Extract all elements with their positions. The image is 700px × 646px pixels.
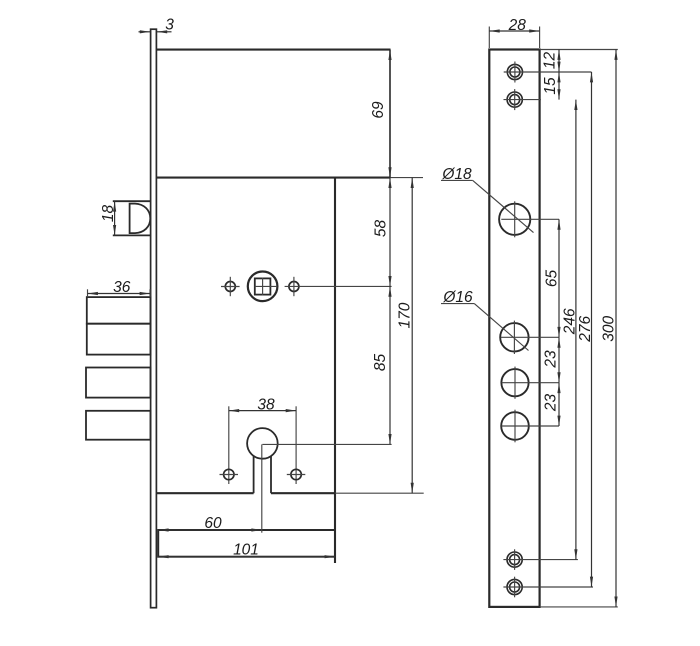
lock body middle edge — [156, 177, 390, 179]
screw hole right of keyhole — [291, 469, 301, 479]
dimension 170 — [411, 178, 413, 494]
hole 3 — [501, 369, 528, 396]
svg-text:300: 300 — [601, 315, 618, 341]
leader D18 — [441, 180, 534, 232]
dimension 18 — [114, 201, 116, 235]
svg-text:246: 246 — [561, 308, 578, 335]
lock body bottom edge — [156, 492, 253, 494]
svg-text:23: 23 — [543, 394, 560, 413]
wire — [271, 492, 335, 494]
svg-text:58: 58 — [373, 220, 390, 238]
dimension 28 — [489, 30, 539, 32]
svg-text:28: 28 — [508, 17, 527, 34]
svg-text:15: 15 — [542, 77, 559, 95]
top extension line — [540, 49, 618, 51]
dimension 58 — [389, 178, 391, 287]
spindle square hole — [255, 278, 271, 294]
svg-text:170: 170 — [397, 302, 414, 328]
dimension 36 — [88, 293, 151, 295]
top screw hole 2 — [507, 92, 522, 107]
dimension 38 — [229, 410, 296, 412]
deadbolt box 3 — [86, 368, 151, 398]
bottom extension line — [540, 606, 618, 608]
dimension 85 — [389, 286, 391, 444]
latch bolt head (D shape) — [130, 204, 151, 234]
keyhole slot left side — [253, 456, 255, 493]
crosshair — [504, 89, 541, 110]
svg-text:69: 69 — [370, 101, 387, 119]
faceplate front outline — [489, 50, 539, 607]
extension line at y=493.2 — [335, 492, 424, 494]
spindle hole circle — [248, 272, 278, 302]
spindle crosshair — [255, 278, 278, 296]
dimension 300 — [615, 50, 617, 607]
crosshair — [501, 201, 559, 237]
latch bolt top edge — [113, 200, 151, 202]
svg-text:65: 65 — [544, 270, 561, 288]
keyhole centerline vertical — [261, 444, 263, 532]
svg-text:85: 85 — [372, 354, 389, 372]
screw hole left of keyhole — [224, 469, 234, 479]
leader D16 — [441, 304, 529, 351]
latch bolt bottom edge — [113, 234, 151, 236]
crosshair — [504, 62, 592, 83]
bottom trim plate (101 box) — [158, 530, 335, 557]
crosshair — [502, 367, 559, 399]
dimension 15 — [558, 72, 560, 100]
svg-text:101: 101 — [233, 542, 259, 559]
svg-text:60: 60 — [204, 515, 222, 532]
crosshair — [503, 577, 593, 598]
svg-text:3: 3 — [165, 17, 174, 34]
faceplate (side view, 3mm strip) — [151, 29, 157, 608]
dimension 246 — [575, 100, 577, 560]
svg-text:276: 276 — [577, 315, 594, 342]
hole 4 — [501, 412, 529, 440]
svg-text:12: 12 — [542, 52, 559, 70]
svg-text:Ø16: Ø16 — [442, 289, 473, 306]
keyhole circle — [247, 428, 278, 459]
lock body right edge — [334, 178, 336, 563]
crosshair — [501, 410, 559, 443]
dimension 101 — [158, 556, 335, 558]
hole D18 — [499, 204, 530, 235]
dimension 12 — [558, 50, 560, 73]
dimension 23 lower — [558, 383, 560, 426]
crosshair — [287, 474, 306, 476]
deadbolt box 4 — [86, 411, 151, 440]
crosshair — [220, 474, 239, 476]
crosshair + extension to dim line — [285, 277, 392, 296]
screw hole right of spindle — [289, 282, 299, 292]
dimension 69 (upper box right edge / dim line) — [389, 50, 391, 178]
hole D16 — [500, 323, 528, 351]
svg-text:23: 23 — [543, 350, 560, 369]
screw hole left of spindle — [225, 282, 235, 292]
extension line at y=177.6 — [391, 177, 424, 179]
crosshair — [221, 277, 240, 296]
lock body upper box top edge — [156, 49, 390, 51]
keyhole centerline horizontal — [262, 443, 391, 445]
dimension 60 — [158, 529, 262, 531]
svg-text:36: 36 — [113, 279, 131, 296]
dimension 3 (faceplate thickness) — [139, 31, 172, 33]
crosshair — [501, 321, 559, 354]
deadbolt box 2 — [87, 324, 151, 355]
svg-text:38: 38 — [257, 397, 275, 414]
keyhole slot right side — [270, 456, 272, 493]
dimension 23 upper — [558, 337, 560, 382]
crosshair — [503, 549, 578, 570]
dimension 276 — [591, 72, 593, 587]
deadbolt box 1 — [87, 297, 151, 324]
dimension 38 extension lines — [229, 406, 296, 484]
svg-text:18: 18 — [100, 205, 117, 223]
top screw hole 1 — [507, 64, 522, 79]
bottom screw hole 1 — [507, 552, 522, 567]
dimension 36 extension lines — [88, 289, 151, 297]
dimension 28 extension lines — [489, 27, 539, 49]
dimension 65 — [558, 219, 560, 337]
bottom screw hole 2 — [507, 579, 522, 594]
svg-text:Ø18: Ø18 — [441, 166, 472, 183]
